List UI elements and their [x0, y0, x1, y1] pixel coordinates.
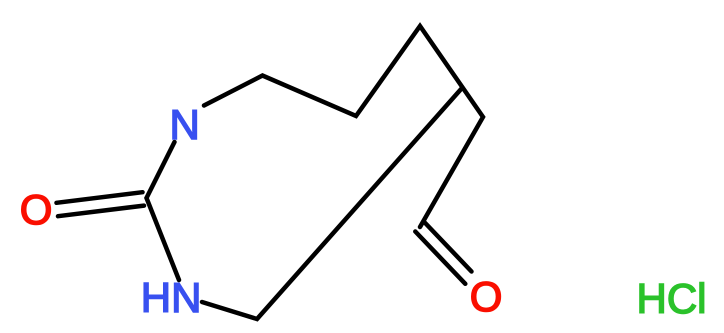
double bond C2=O1 line 1 — [57, 192, 143, 203]
double bond Cc=O2 line 2 — [425, 223, 472, 272]
svg-text:O: O — [470, 273, 503, 320]
double bond C2=O1 line 2 — [58, 206, 144, 217]
bond chain N3-C4-V — [202, 88, 462, 319]
svg-text:O: O — [20, 186, 53, 233]
svg-text:N: N — [170, 101, 200, 148]
svg-text:HCl: HCl — [637, 275, 707, 322]
svg-text:HN: HN — [141, 274, 202, 321]
bond chain N1-C2-N3 — [147, 142, 180, 280]
double bond Cc=O2 line 1 — [415, 232, 465, 284]
bond chain N1-A-B-T-B'-Cc — [204, 26, 483, 227]
